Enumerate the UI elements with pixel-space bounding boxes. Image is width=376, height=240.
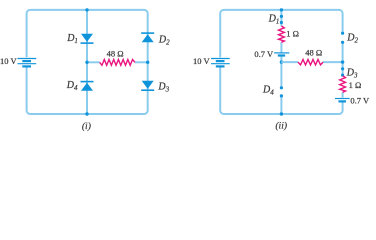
wire: (ii) middle branch between resistor and cell bbox=[280, 42, 282, 52]
wire: (ii) middle branch below D4 gap bbox=[280, 96, 282, 114]
svg-text:48 Ω: 48 Ω bbox=[107, 48, 124, 58]
node: (i) middle-left junction bbox=[85, 61, 88, 64]
node: (ii) middle junction with resistor branch bbox=[280, 60, 283, 63]
cell 0.7 V of D3 model : short thick plate bbox=[338, 100, 346, 102]
node: (ii) right junction with resistor branch bbox=[341, 60, 344, 63]
svg-text:D4: D4 bbox=[262, 85, 274, 97]
cell 0.7 V of D3 model : long plate bbox=[335, 98, 350, 100]
wire: (i) resistor branch right segment bbox=[135, 61, 148, 63]
node: (i) bottom junction bbox=[85, 112, 88, 115]
node: (i) middle-right junction bbox=[146, 61, 149, 64]
node: D1 upper terminal dot 2 bbox=[280, 21, 283, 24]
node: D4 top terminal dot bbox=[280, 86, 283, 89]
diode D3 (pointing down, on right edge) bbox=[141, 81, 154, 91]
svg-text:1 Ω: 1 Ω bbox=[349, 80, 362, 90]
node: D3 top terminal dot bbox=[341, 67, 344, 70]
svg-text:D1: D1 bbox=[66, 33, 78, 45]
battery (i) plate long lower bbox=[18, 63, 37, 65]
battery (ii) plate short thick bottom bbox=[216, 65, 225, 67]
battery (ii) 10 V : gap in left wire bbox=[217, 57, 225, 67]
cell 0.7 V of D1 model : short thick plate bbox=[278, 54, 285, 56]
svg-text:10 V: 10 V bbox=[193, 56, 210, 66]
wire: (i) resistor branch left segment bbox=[87, 61, 100, 63]
node: (i) top junction bbox=[85, 8, 88, 11]
node: D3 terminal dot 2 bbox=[341, 74, 344, 77]
gap: D3 resistor region on right edge bbox=[338, 76, 348, 92]
svg-text:D1: D1 bbox=[268, 14, 280, 26]
gap: D3 cell region on right edge bbox=[339, 98, 347, 102]
resistor 1 ohm of D3 model bbox=[340, 76, 346, 93]
node: D2 bottom terminal dot bbox=[341, 41, 344, 44]
svg-text:D3: D3 bbox=[157, 82, 169, 94]
battery (ii) plate short thick bbox=[216, 60, 225, 62]
svg-text:48 Ω: 48 Ω bbox=[305, 48, 322, 58]
svg-text:D3: D3 bbox=[346, 68, 358, 80]
battery (ii) plate long lower bbox=[211, 63, 230, 65]
svg-text:(ii): (ii) bbox=[275, 121, 287, 132]
battery (i) plate long top bbox=[18, 58, 37, 60]
svg-text:D4: D4 bbox=[66, 80, 78, 92]
svg-text:0.7 V: 0.7 V bbox=[254, 49, 274, 59]
svg-text:D2: D2 bbox=[346, 33, 358, 45]
resistor 1 ohm of D1 model bbox=[279, 26, 285, 42]
diode D2 (pointing up, on right edge) bbox=[141, 33, 154, 42]
wire: (ii) resistor branch right segment bbox=[323, 61, 343, 63]
svg-text:1 Ω: 1 Ω bbox=[286, 28, 299, 38]
wire: (ii) middle branch top segment bbox=[280, 10, 282, 26]
resistor 48 ohm (i) zigzag bbox=[100, 60, 135, 66]
battery (ii) plate long top bbox=[211, 58, 230, 60]
battery (i) plate short thick bbox=[22, 60, 31, 62]
gap: D2 open on right edge bbox=[339, 34, 347, 41]
wire: (ii) resistor branch left segment bbox=[281, 61, 298, 63]
node: (ii) top junction bbox=[280, 8, 283, 11]
node: (ii) bottom junction bbox=[280, 112, 283, 115]
battery (i) 10 V : gap in left wire bbox=[23, 57, 31, 67]
resistor 48 ohm (ii) zigzag bbox=[298, 59, 323, 65]
svg-text:0.7 V: 0.7 V bbox=[350, 96, 370, 106]
wire: circuit (ii) outer loop bbox=[220, 10, 342, 114]
battery (i) plate short thick bottom bbox=[22, 65, 31, 67]
node: D2 top terminal dot bbox=[341, 32, 344, 35]
diode D1 (pointing down) bbox=[81, 34, 94, 43]
svg-text:D2: D2 bbox=[158, 35, 170, 47]
wire: (i) middle branch D1/D4 vertical bbox=[86, 10, 88, 114]
wire: circuit (i) outer loop bbox=[27, 10, 148, 114]
cell 0.7 V of D1 model : long plate bbox=[274, 52, 289, 54]
node: D1 anode terminal dot bbox=[280, 15, 283, 18]
node: D4 bottom terminal dot bbox=[280, 94, 283, 97]
svg-text:(i): (i) bbox=[82, 121, 91, 132]
diode D4 (pointing up) bbox=[81, 82, 94, 91]
wire: (ii) middle branch cell to D4 gap bbox=[280, 56, 282, 88]
svg-text:10 V: 10 V bbox=[0, 56, 17, 66]
